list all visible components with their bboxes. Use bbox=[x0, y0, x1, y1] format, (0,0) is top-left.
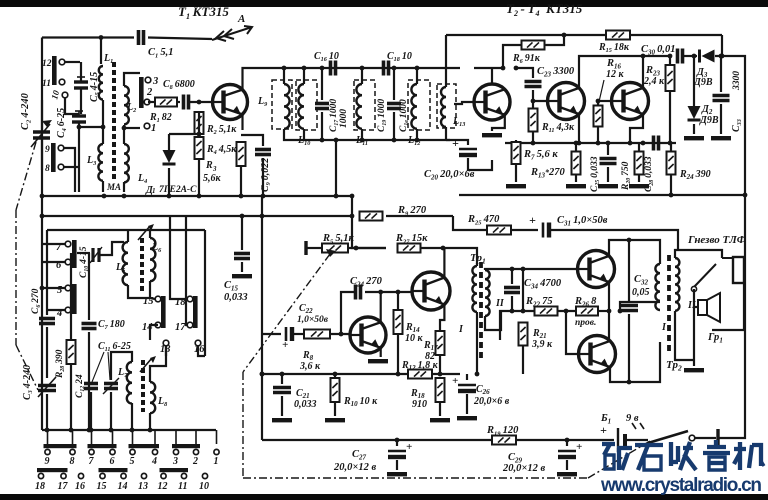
svg-text:II: II bbox=[687, 300, 697, 311]
capacitor C21 0,033 bbox=[281, 374, 283, 384]
svg-text:R7 5,6 к: R7 5,6 к bbox=[523, 149, 558, 161]
wire T4 emitter bbox=[630, 114, 643, 143]
node 3 bbox=[145, 77, 151, 83]
capacitor C19 tank2 bbox=[393, 68, 395, 100]
wire R5 arrow bbox=[326, 249, 336, 257]
wire L3 bottom bbox=[102, 181, 104, 192]
terminal 1 row1 bbox=[214, 449, 219, 454]
capacitor C11 trimmer bbox=[104, 384, 118, 389]
capacitor C30 0,01 bbox=[678, 49, 683, 64]
capacitor C31 electrolytic bbox=[543, 223, 551, 238]
svg-text:R: R bbox=[205, 160, 213, 171]
capacitor C20 electrolytic bbox=[446, 140, 468, 145]
wire left main vertical bbox=[41, 38, 43, 197]
svg-text:15: 15 bbox=[97, 481, 107, 492]
svg-text:910: 910 bbox=[412, 399, 427, 410]
svg-text:1: 1 bbox=[151, 123, 156, 134]
wire C23 branch bbox=[516, 68, 533, 78]
wire R21 drop bbox=[522, 269, 524, 311]
capacitor C4 trimmer bbox=[72, 111, 86, 122]
svg-text:0,033: 0,033 bbox=[224, 292, 248, 303]
resistor R10 10k bbox=[334, 374, 336, 378]
wire T3 collector bbox=[579, 56, 640, 88]
wire C24 to base node bbox=[341, 292, 354, 334]
wire AGC to R25 row bbox=[453, 216, 487, 230]
svg-text:1,0×50в: 1,0×50в bbox=[297, 315, 329, 325]
core L5L6 bbox=[140, 238, 144, 292]
svg-text:С4 6-25: С4 6-25 bbox=[56, 108, 68, 138]
terminal strip row1 bars bbox=[44, 444, 77, 448]
wire L8 leads bbox=[150, 346, 166, 382]
capacitor C9 0,022 bbox=[241, 135, 263, 146]
wire T7 collector to Tr2 bbox=[609, 240, 660, 264]
wire left vertical lower bbox=[41, 196, 43, 430]
wire T2 base from L13 bbox=[454, 102, 474, 104]
resistor R24 390 bbox=[667, 152, 676, 175]
capacitor C25 0,033 bbox=[607, 143, 609, 155]
wire L13 top to top bus bbox=[445, 35, 447, 87]
capacitor C3 variable bbox=[38, 386, 56, 391]
svg-text:2,4 к: 2,4 к bbox=[643, 76, 665, 87]
svg-text:3,9 к: 3,9 к bbox=[531, 339, 553, 350]
resistor R18 910 bbox=[436, 378, 445, 402]
svg-text:5: 5 bbox=[130, 456, 135, 467]
svg-text:+: + bbox=[282, 339, 288, 351]
wire L9 leads bbox=[283, 68, 285, 84]
svg-text:3: 3 bbox=[212, 165, 217, 173]
svg-text:10 к: 10 к bbox=[405, 333, 424, 344]
wire L7 leads bbox=[111, 352, 132, 366]
capacitor C34 4700 bbox=[511, 269, 513, 284]
svg-text:Д9В: Д9В bbox=[693, 77, 713, 88]
terminal 15 row2 bbox=[100, 473, 105, 478]
capacitor C6 270 bbox=[46, 310, 48, 315]
svg-text:С9 0,022: С9 0,022 bbox=[260, 158, 272, 192]
wire top coupling bus bbox=[296, 67, 460, 69]
capacitor C7 180 bbox=[88, 253, 90, 320]
svg-text:R25 470: R25 470 bbox=[467, 214, 500, 226]
svg-text:7ГЕ2А-С: 7ГЕ2А-С bbox=[159, 185, 197, 195]
svg-text:20,0×12 в: 20,0×12 в bbox=[502, 463, 545, 474]
wire right edge vertical bbox=[722, 56, 745, 195]
svg-text:12 к: 12 к bbox=[606, 69, 625, 80]
svg-text:R4 4,5к: R4 4,5к bbox=[206, 144, 237, 156]
bottom border bar bbox=[0, 494, 768, 500]
wire L2 bottom to terminal 1 bbox=[124, 127, 140, 129]
svg-text:С1 5,1: С1 5,1 bbox=[148, 47, 174, 59]
terminal 12 row2 bbox=[161, 473, 166, 478]
wire T4 collector bbox=[642, 56, 644, 88]
wire T5 emitter ground bbox=[380, 348, 382, 357]
svg-text:С6 270: С6 270 bbox=[31, 288, 42, 314]
wire L2 top to terminal 3 bbox=[124, 73, 140, 86]
resistor R16 12k variable bbox=[597, 101, 599, 105]
terminal strip row2 bars bbox=[37, 468, 68, 472]
svg-text:С2 4-240: С2 4-240 bbox=[20, 92, 32, 130]
svg-text:С16 10: С16 10 bbox=[314, 51, 339, 63]
wire R25 to C31 bbox=[511, 229, 538, 231]
node 5 bbox=[65, 285, 71, 291]
capacitor C28 0,033 bbox=[654, 136, 659, 151]
phones jack bbox=[691, 257, 744, 292]
terminal 6 row1 bbox=[110, 449, 115, 454]
resistor R15 18k bbox=[606, 31, 630, 40]
svg-text:1: 1 bbox=[214, 456, 219, 467]
terminal 16 row2 bbox=[78, 473, 83, 478]
wire bottom rail bbox=[262, 439, 614, 441]
wire tank bottoms bbox=[296, 139, 450, 141]
wire AGC bus y216 bbox=[42, 215, 352, 217]
switch bar 7-6 bbox=[72, 240, 77, 268]
wire 13 16 stubs bbox=[165, 346, 167, 356]
wire tanks to ground bus bbox=[335, 140, 337, 196]
node 4 bbox=[65, 307, 71, 313]
wire R3 to ground bus bbox=[240, 166, 242, 196]
switch bar 15-14 bbox=[161, 296, 166, 328]
inductor L9 bbox=[284, 84, 290, 129]
svg-text:R20 750: R20 750 bbox=[621, 161, 632, 191]
wire C23 to T3 base bbox=[533, 90, 546, 101]
transistor T1 bbox=[213, 85, 248, 120]
wire bottom-left bus bbox=[42, 429, 216, 431]
capacitor C18 10 bbox=[384, 61, 389, 76]
ground R20 bbox=[629, 184, 649, 188]
speaker Gr1 bbox=[698, 293, 720, 322]
svg-text:20,0×6 в: 20,0×6 в bbox=[473, 396, 510, 407]
node 13 bbox=[163, 340, 169, 346]
node 7 bbox=[65, 241, 71, 247]
inductor L12 bbox=[411, 84, 417, 129]
wire C8 to T1 base bbox=[190, 101, 212, 103]
shield box L12 bbox=[408, 80, 430, 130]
wire block top branch bbox=[100, 38, 102, 65]
switch bar 18-17 bbox=[193, 296, 198, 328]
wire antenna to symbol bbox=[148, 38, 212, 40]
resistor R1 82 bbox=[148, 101, 154, 103]
inductor L3 bbox=[98, 144, 103, 181]
terminal 9 row1 bbox=[45, 449, 50, 454]
ground T2 emitter bbox=[482, 133, 502, 137]
transformer Tr2 secondary bbox=[675, 258, 679, 311]
resistor R5 5,1k variable bbox=[304, 241, 307, 255]
antenna symbol bbox=[212, 26, 252, 41]
resistor R19 120 bbox=[492, 436, 516, 445]
svg-text:13: 13 bbox=[138, 481, 148, 492]
top border bar bbox=[0, 0, 768, 7]
inductor L8 bbox=[150, 382, 155, 413]
wire R6 to T2 collector bus bbox=[474, 45, 521, 68]
svg-text:6: 6 bbox=[110, 456, 115, 467]
ground bus top block bbox=[42, 195, 352, 197]
resistor R20 750 bbox=[635, 152, 644, 175]
capacitor C12 trimmer bbox=[84, 384, 98, 389]
resistor R28 390 bbox=[70, 253, 72, 340]
transistor T4 bbox=[612, 83, 649, 120]
resistor R23 2,4k bbox=[669, 56, 671, 64]
wire T2 emitter to ground bbox=[492, 115, 505, 131]
inductor L6 bbox=[150, 238, 155, 281]
wire 7-6 links bbox=[42, 243, 65, 245]
switch bar 3-2 bbox=[139, 77, 144, 108]
wire T5 base row bbox=[262, 333, 281, 335]
svg-text:R11 4,3к: R11 4,3к bbox=[541, 122, 575, 134]
capacitor C15 0,033 bbox=[241, 216, 243, 250]
wire band bus top bbox=[47, 229, 205, 231]
ground Tr2 bbox=[693, 360, 695, 366]
wire L12 leads bbox=[416, 68, 418, 84]
wire T8 base drop bbox=[566, 311, 578, 354]
wire T4 base bbox=[598, 100, 611, 102]
svg-text:Т2 - Т4 КТ315: Т2 - Т4 КТ315 bbox=[506, 1, 583, 18]
wire T1 emitter down bbox=[241, 115, 243, 131]
capacitor C5 trimmer bbox=[74, 77, 88, 88]
terminal 8 row1 bbox=[70, 449, 75, 454]
svg-text:Т1 КТ315: Т1 КТ315 bbox=[178, 4, 229, 21]
resistor R26 provod bbox=[576, 307, 598, 316]
resistor R14 10k bbox=[397, 292, 399, 310]
capacitor C16 10 bbox=[331, 61, 336, 76]
svg-text:R27 15к: R27 15к bbox=[395, 233, 428, 245]
wire C30 row bbox=[640, 55, 672, 57]
terminal 5 row1 bbox=[130, 449, 135, 454]
svg-text:+: + bbox=[576, 441, 582, 453]
svg-text:R6 91к: R6 91к bbox=[512, 53, 541, 65]
resistor R13 star bbox=[572, 152, 581, 175]
shield box L13 bbox=[437, 84, 456, 128]
wire amp left vertical bbox=[261, 197, 263, 440]
node 17 bbox=[187, 322, 193, 328]
resistor R9 270 bbox=[360, 212, 383, 221]
svg-text:А: А bbox=[237, 13, 245, 25]
wire T8 collector to Tr2 bbox=[610, 342, 660, 382]
node junction base divider bbox=[197, 100, 202, 105]
transformer Tr2 primary bbox=[655, 264, 660, 310]
diode D3 bbox=[700, 50, 715, 63]
svg-text:МА: МА bbox=[106, 182, 121, 192]
terminal 14 row2 bbox=[121, 473, 126, 478]
capacitor C23 3300 bbox=[525, 82, 542, 87]
svg-text:R1 82: R1 82 bbox=[149, 112, 172, 124]
svg-text:17: 17 bbox=[175, 322, 186, 333]
node 18 bbox=[187, 296, 193, 302]
mechanical link dash-dot bbox=[243, 254, 330, 372]
wire T3 emitter bbox=[578, 114, 580, 143]
wire antenna line bbox=[42, 36, 134, 38]
core Tr2 bbox=[667, 255, 671, 352]
svg-text:R24 390: R24 390 bbox=[679, 169, 711, 181]
resistor R11 4,3k bbox=[532, 101, 534, 108]
wire L11 leads bbox=[361, 68, 363, 84]
resistor R8 3,6k bbox=[294, 333, 303, 335]
wire contacts 9-8 out bbox=[64, 148, 75, 192]
wire jack to speaker line bbox=[693, 289, 695, 360]
wire R16 pointer bbox=[598, 80, 604, 106]
gang arrow C2 bbox=[42, 120, 52, 127]
svg-text:+: + bbox=[529, 213, 536, 227]
shield box L11 bbox=[354, 80, 375, 130]
wire contacts verticals bbox=[170, 216, 187, 299]
svg-text:R2 5,1к: R2 5,1к bbox=[206, 124, 237, 136]
svg-text:8: 8 bbox=[70, 456, 75, 467]
inductor L7 bbox=[127, 362, 132, 404]
svg-text:+: + bbox=[452, 375, 458, 387]
svg-text:R10 10 к: R10 10 к bbox=[343, 396, 378, 408]
capacitor C27 electrolytic bbox=[396, 440, 398, 446]
resistor R21 3,9k bbox=[519, 323, 528, 346]
svg-text:Д9В: Д9В bbox=[699, 115, 719, 126]
node 11 bbox=[59, 79, 65, 85]
svg-text:www.crystalradio.cn: www.crystalradio.cn bbox=[600, 475, 762, 496]
svg-text:9 в: 9 в bbox=[626, 413, 639, 424]
inductor L13 bbox=[441, 87, 446, 127]
capacitor C33 3300 bbox=[720, 56, 722, 92]
node 1 bbox=[144, 123, 150, 129]
node 10 bbox=[62, 92, 68, 98]
capacitor C24 270 bbox=[356, 285, 361, 300]
terminal 2 row1 bbox=[193, 449, 198, 454]
capacitor C2 variable bbox=[31, 124, 50, 147]
wire C10 to L5 bbox=[99, 242, 124, 255]
capacitor C26 electrolytic bbox=[466, 374, 468, 380]
resistor R12 1,8k bbox=[408, 370, 432, 379]
wire T2 collector bbox=[491, 68, 493, 84]
wire 15 link bbox=[150, 298, 155, 299]
svg-text:прoв.: прoв. bbox=[575, 318, 596, 328]
wire T5 collector to C24 bbox=[365, 292, 381, 322]
svg-text:16: 16 bbox=[75, 481, 85, 492]
inductor L10 bbox=[298, 84, 304, 129]
wire C4 column down bbox=[78, 122, 80, 192]
wire C2 stems bbox=[41, 100, 43, 132]
terminal 11 row2 bbox=[181, 473, 186, 478]
wire Tr2 tap bbox=[620, 302, 660, 311]
svg-text:С34 4700: С34 4700 bbox=[524, 278, 562, 290]
transformer Tr1 secondary bbox=[485, 270, 490, 316]
svg-text:С12 24: С12 24 bbox=[75, 374, 86, 398]
capacitor C32 0,05 bbox=[628, 240, 630, 302]
transistor T7 bbox=[578, 251, 615, 288]
capacitor C10 trimmer bbox=[90, 247, 102, 263]
terminal 3 row1 bbox=[173, 449, 178, 454]
resistor R7 5,6k bbox=[515, 140, 517, 143]
resistor R6 91k bbox=[522, 41, 545, 50]
svg-text:12: 12 bbox=[42, 59, 52, 69]
svg-text:4: 4 bbox=[151, 456, 157, 467]
node 9 bbox=[58, 145, 64, 151]
trimmer arrow L5L6 bbox=[138, 226, 150, 240]
resistor R4 4,5k bbox=[198, 112, 200, 134]
node 8 bbox=[58, 164, 64, 170]
wire emitters join bbox=[608, 282, 610, 341]
ferrite core MA rod bbox=[112, 62, 116, 181]
transistor T2 bbox=[474, 84, 510, 120]
node 12 bbox=[52, 56, 57, 85]
wire Tr1 secondary top bbox=[485, 269, 577, 270]
wire C30 to diode bbox=[684, 55, 697, 57]
trimmer arrow L7 bbox=[140, 358, 152, 372]
resistor R22 75 bbox=[535, 307, 558, 316]
ground R13 bbox=[566, 184, 586, 188]
svg-text:9: 9 bbox=[45, 145, 50, 155]
svg-text:R9 270: R9 270 bbox=[397, 205, 427, 217]
core Tr1 bbox=[479, 262, 483, 360]
wire R4 bottom to ground bus bbox=[198, 159, 200, 196]
wire R27 row bbox=[352, 196, 386, 248]
svg-text:Гнезво ТЛФ: Гнезво ТЛФ bbox=[687, 234, 747, 246]
wire R5 to R27 bbox=[348, 247, 386, 249]
terminal 18 row2 bbox=[38, 473, 43, 478]
wire feedback row y374 bbox=[262, 373, 460, 375]
wire T6 base wire bbox=[381, 291, 413, 293]
wire Tr2 secondary top bbox=[675, 250, 722, 258]
watermark hanzi kuang shi shou yin ji bbox=[602, 444, 632, 470]
svg-text:1000: 1000 bbox=[339, 109, 349, 128]
svg-text:11: 11 bbox=[178, 481, 187, 492]
core L7L8 bbox=[141, 360, 145, 412]
capacitor C22 electrolytic bbox=[286, 327, 294, 341]
wire L4 bottom bbox=[123, 182, 125, 192]
svg-text:18: 18 bbox=[35, 481, 45, 492]
capacitor C29 electrolytic bbox=[566, 440, 568, 446]
svg-text:R12 1,8 к: R12 1,8 к bbox=[401, 360, 439, 372]
svg-text:R19 120: R19 120 bbox=[486, 425, 519, 437]
wire diode to right corner bbox=[715, 35, 722, 56]
svg-text:3,6 к: 3,6 к bbox=[299, 361, 321, 372]
svg-text:9: 9 bbox=[45, 456, 50, 467]
node 15 bbox=[155, 296, 161, 302]
inductor L2 bbox=[124, 86, 129, 124]
node 16 bbox=[195, 340, 201, 346]
wire speaker return bbox=[712, 283, 744, 330]
svg-text:R28 390: R28 390 bbox=[55, 349, 66, 379]
battery B1 bbox=[617, 428, 619, 452]
node 6 bbox=[65, 259, 71, 265]
wire L10 leads bbox=[303, 68, 305, 84]
shield box L10 bbox=[296, 80, 317, 130]
svg-text:+: + bbox=[406, 441, 412, 453]
terminal 4 row1 bbox=[152, 449, 157, 454]
wire L5 top bbox=[127, 230, 129, 242]
wire Tr1 secondary bottom bbox=[485, 311, 501, 330]
svg-text:С28 0,033: С28 0,033 bbox=[644, 156, 655, 192]
svg-text:R15 18к: R15 18к bbox=[598, 42, 630, 54]
node 14 bbox=[155, 322, 161, 328]
switch Vk bbox=[625, 439, 648, 441]
wire L1 to L3 column bbox=[102, 100, 104, 144]
svg-text:12: 12 bbox=[158, 481, 168, 492]
wire C4 to L3 junction bbox=[79, 126, 103, 128]
terminal 17 row2 bbox=[61, 473, 66, 478]
svg-text:3: 3 bbox=[152, 76, 158, 87]
switch bar 5-4 bbox=[72, 284, 77, 314]
wire L6 leads bbox=[149, 230, 151, 238]
svg-text:2: 2 bbox=[146, 87, 153, 98]
resistor R3 5,6k emitter bbox=[237, 142, 246, 166]
wire top supply bus bbox=[446, 34, 607, 36]
svg-text:5: 5 bbox=[57, 285, 62, 296]
svg-text:R5 5,1к: R5 5,1к bbox=[322, 233, 354, 245]
svg-text:10: 10 bbox=[199, 481, 209, 492]
wire Tr2 secondary bottom bbox=[675, 311, 694, 360]
resistor R17 82 bbox=[436, 331, 445, 355]
inductor L1 bbox=[99, 66, 103, 100]
wire emitter bias row y311 bbox=[500, 311, 534, 340]
svg-text:3300: 3300 bbox=[732, 71, 742, 91]
svg-text:14: 14 bbox=[118, 481, 128, 492]
svg-text:С25 0,033: С25 0,033 bbox=[590, 156, 601, 192]
diode D1 bbox=[168, 134, 170, 150]
wire R27 to T6 collector bbox=[421, 247, 443, 249]
